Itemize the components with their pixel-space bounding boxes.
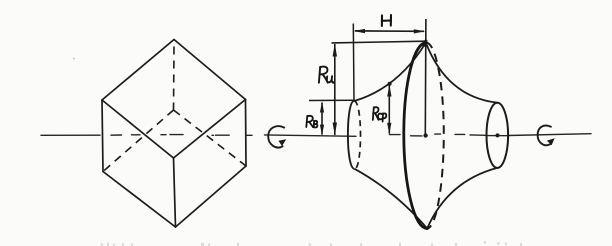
cropped caption remnants at bottom bbox=[101, 241, 522, 246]
cube edge top to upper-left bbox=[102, 40, 174, 101]
cube edge upper-right to front vertex bbox=[174, 100, 246, 159]
middle meridian circle: front half (thick solid) bbox=[404, 43, 427, 229]
rotation symbol right (arc with arrow) bbox=[538, 126, 555, 146]
stray faint dot upper left bbox=[73, 58, 75, 60]
apex thick join bbox=[424, 41, 426, 45]
left end circle: hidden back half (dashed) bbox=[354, 101, 360, 169]
cube edge upper-left to front vertex bbox=[102, 100, 174, 158]
H dimension left extension line bbox=[352, 24, 355, 101]
right circle center dot bbox=[496, 133, 500, 137]
cube: hidden dashed edges bbox=[103, 47, 246, 172]
cube edge lower-left to bottom bbox=[103, 172, 176, 228]
Rv down arrowhead bbox=[320, 125, 324, 136]
middle meridian circle: back half (dashed) bbox=[426, 43, 444, 229]
Rcp down arrowhead bbox=[387, 123, 391, 135]
rotation symbol left (arc with arrow) bbox=[268, 126, 286, 147]
H dimension left arrowhead bbox=[354, 29, 365, 33]
cube edge front vertex to bottom bbox=[174, 158, 176, 227]
silhouette curve bottom-left bbox=[355, 169, 428, 229]
label Rcp bbox=[373, 107, 387, 121]
H dimension right extension / center line of figure bbox=[424, 19, 427, 134]
apex-level reference line for Rm bbox=[332, 41, 426, 43]
label H bbox=[382, 15, 391, 26]
silhouette curve top-right bbox=[426, 43, 498, 103]
H dimension line bbox=[355, 30, 424, 32]
Rcp up arrowhead bbox=[387, 85, 391, 97]
circle-top reference line for Rv bbox=[309, 99, 354, 101]
cube edge lower-right to bottom bbox=[176, 166, 247, 227]
H dimension right arrowhead bbox=[414, 29, 425, 33]
left end circle of revolution: solid front half bbox=[348, 101, 355, 169]
cube hidden edge back vertex to lower-left bbox=[103, 110, 174, 172]
Rv up arrowhead bbox=[320, 102, 324, 113]
Rv dimension line bbox=[321, 103, 323, 135]
right end circle of revolution (solid) bbox=[487, 103, 509, 168]
cube hidden edge top to back vertex bbox=[173, 47, 176, 111]
Rm down arrowhead bbox=[333, 123, 337, 136]
cube edge top to upper-right bbox=[174, 40, 246, 100]
bottom point thick join bbox=[425, 227, 428, 230]
label Rv bbox=[306, 116, 317, 128]
axis of rotation (dash-dot centerline) bbox=[41, 134, 591, 137]
Rm up arrowhead bbox=[333, 43, 337, 56]
cube edge right vertical bbox=[245, 100, 248, 167]
cube edge left vertical bbox=[102, 100, 103, 172]
silhouette curve top-left bbox=[354, 43, 426, 101]
Rcp dimension start dot on silhouette bbox=[388, 82, 392, 86]
center dot on axis bbox=[423, 133, 427, 137]
Rm dimension line bbox=[334, 44, 336, 135]
label Rm bbox=[319, 67, 334, 83]
silhouette curve bottom-right bbox=[427, 168, 497, 229]
cube hidden edge back vertex to lower-right bbox=[174, 110, 247, 166]
Rcp dimension line bbox=[388, 85, 390, 134]
cube: solid visible edges bbox=[102, 40, 246, 228]
